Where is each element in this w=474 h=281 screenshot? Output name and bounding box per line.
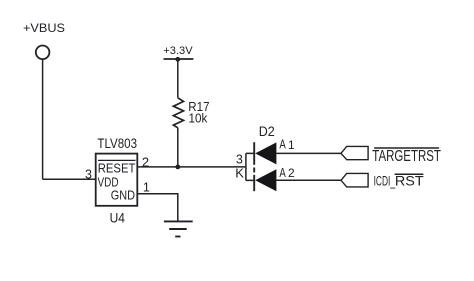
ground	[164, 221, 193, 236]
refdes D2	[259, 124, 275, 139]
wire (cathode bracket)	[246, 153, 254, 180]
junction	[175, 57, 180, 62]
wire	[42, 59, 44, 179]
svg-text:2: 2	[288, 166, 295, 180]
IC U4	[96, 154, 138, 206]
value TLV803	[97, 136, 137, 151]
svg-text:TARGETRST: TARGETRST	[372, 148, 441, 165]
wire	[177, 59, 179, 98]
pin name GND	[111, 188, 135, 203]
terminal +VBUS	[36, 46, 50, 60]
svg-text:1: 1	[288, 138, 295, 152]
wire	[43, 178, 96, 180]
junction	[175, 165, 180, 170]
diode D2 triangle 1	[255, 142, 276, 164]
pin 3	[85, 168, 92, 182]
connector port TARGETRST	[341, 146, 441, 165]
power +3.3V	[163, 45, 193, 59]
pin K label	[235, 166, 244, 181]
svg-text:1: 1	[143, 181, 150, 195]
svg-text:3: 3	[85, 168, 92, 182]
diode D2 triangle 2	[255, 169, 276, 191]
svg-text:D2: D2	[259, 124, 275, 139]
svg-text:3: 3	[236, 153, 243, 167]
pin A 1	[279, 136, 295, 152]
pin name RESET (active low)	[98, 160, 136, 175]
svg-text:+3.3V: +3.3V	[163, 45, 193, 57]
pin 1	[143, 181, 150, 195]
svg-text:ICDI_: ICDI_	[374, 173, 396, 188]
wire	[276, 152, 341, 154]
svg-text:GND: GND	[111, 188, 135, 203]
node +VBUS	[23, 21, 65, 35]
connector port ICDI_RST	[341, 173, 424, 188]
pin 2	[142, 155, 149, 170]
svg-text:RST: RST	[395, 173, 424, 188]
svg-text:10k: 10k	[189, 111, 208, 125]
pin A 2	[279, 165, 295, 180]
refdes U4	[110, 209, 125, 225]
wire	[276, 179, 341, 181]
svg-text:K: K	[235, 166, 244, 181]
pin 3 (diode common cathode)	[236, 153, 243, 167]
svg-text:RESET: RESET	[98, 160, 136, 175]
wire	[177, 128, 179, 167]
wire	[137, 166, 246, 168]
svg-text:+VBUS: +VBUS	[23, 21, 65, 35]
svg-text:U4: U4	[110, 209, 125, 225]
pin name VDD	[98, 174, 119, 189]
diode D2 unit A (common cathode bar + package dash)	[253, 142, 255, 191]
svg-text:A: A	[279, 136, 286, 151]
resistor R17	[173, 98, 209, 128]
wire	[137, 194, 178, 222]
svg-text:A: A	[279, 165, 286, 180]
svg-text:TLV803: TLV803	[97, 136, 137, 151]
